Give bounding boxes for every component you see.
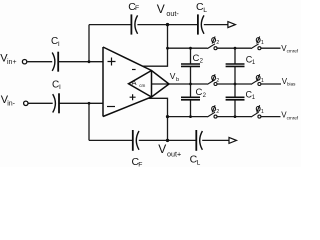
svg-text:C: C <box>193 53 200 64</box>
svg-text:2: 2 <box>216 78 219 84</box>
svg-text:1: 1 <box>261 109 264 115</box>
svg-text:b: b <box>176 77 179 83</box>
svg-text:L: L <box>203 7 207 14</box>
svg-text:out+: out+ <box>167 149 181 158</box>
svg-text:1: 1 <box>261 78 264 84</box>
svg-text:cm: cm <box>139 83 145 88</box>
svg-text:in-: in- <box>7 100 15 107</box>
svg-text:L: L <box>197 159 201 166</box>
svg-text:cmref: cmref <box>287 115 299 120</box>
svg-text:V: V <box>158 142 166 156</box>
svg-text:C: C <box>196 87 203 98</box>
svg-text:2: 2 <box>216 109 219 115</box>
svg-text:V: V <box>170 71 176 81</box>
svg-text:cmref: cmref <box>287 49 299 54</box>
svg-text:in+: in+ <box>7 59 17 66</box>
svg-text:V: V <box>157 2 165 16</box>
svg-text:I: I <box>58 41 60 48</box>
svg-text:2: 2 <box>216 40 219 46</box>
svg-text:I: I <box>59 84 61 91</box>
svg-text:F: F <box>135 5 139 12</box>
svg-text:F: F <box>138 162 142 168</box>
svg-text:out-: out- <box>166 9 179 18</box>
svg-text:-A: -A <box>129 78 137 87</box>
svg-text:1: 1 <box>261 40 264 46</box>
svg-text:bias: bias <box>287 81 296 86</box>
